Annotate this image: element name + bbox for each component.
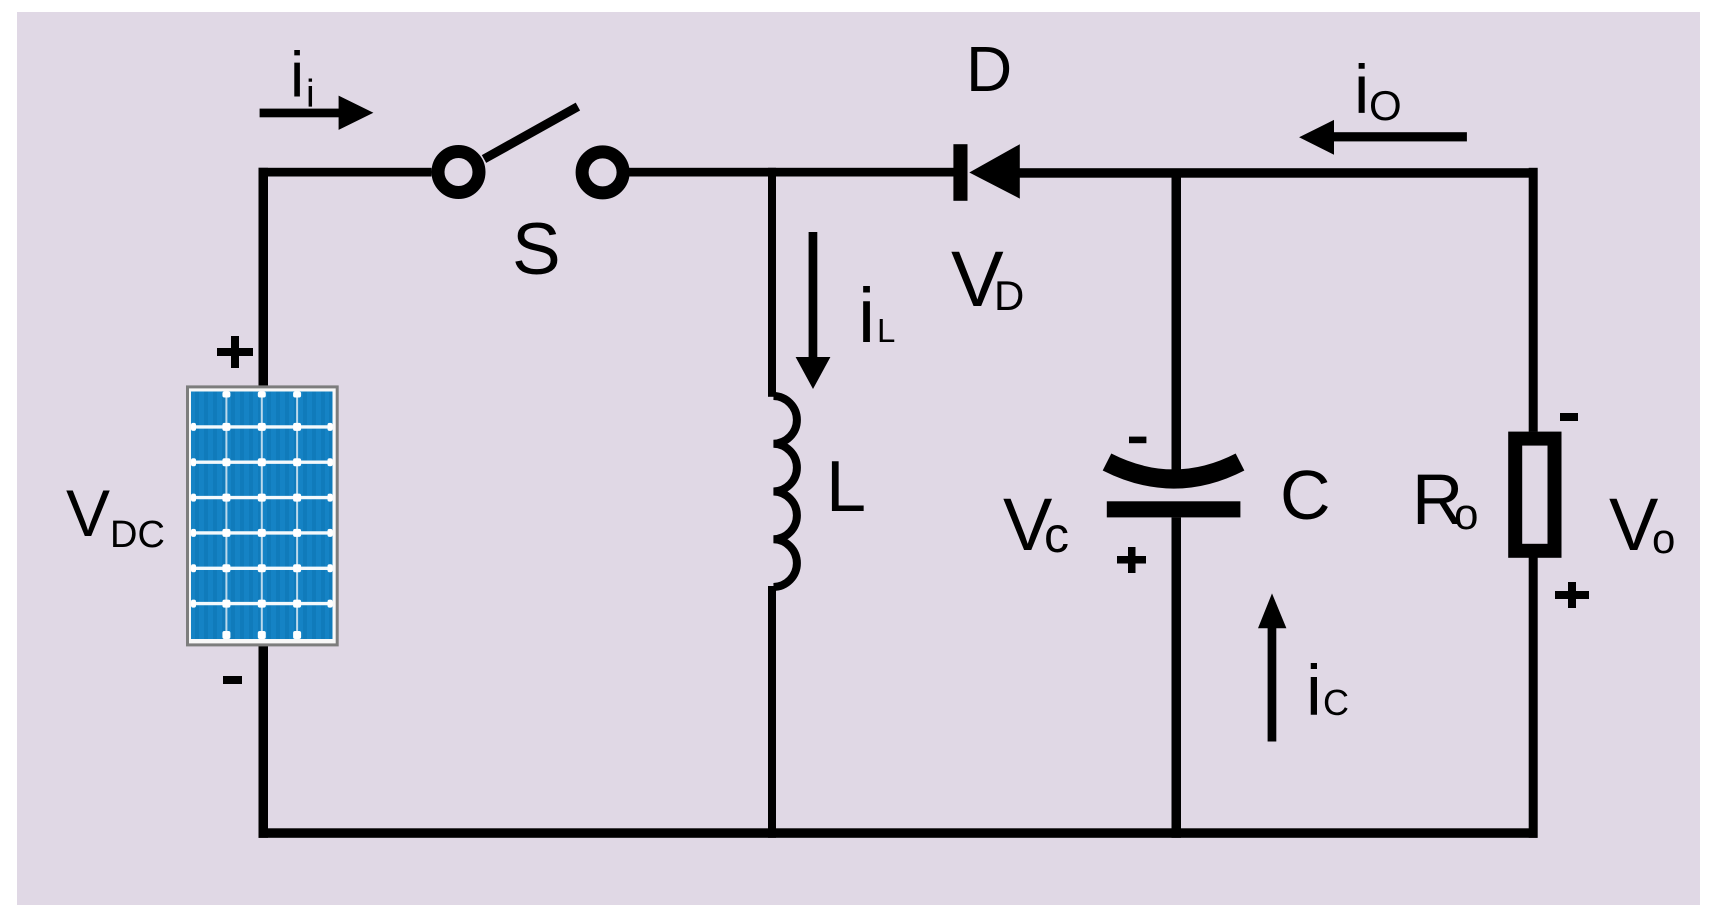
- svg-text:V: V: [66, 476, 110, 550]
- svg-text:D: D: [966, 33, 1012, 105]
- resistor Ro body: [1515, 439, 1554, 551]
- current arrow i_i: [260, 96, 374, 130]
- current arrow i_O: [1299, 120, 1467, 155]
- svg-text:L: L: [826, 447, 866, 527]
- switch S: right terminal: [582, 152, 623, 193]
- capacitor branch wire (bottom): [1172, 517, 1182, 837]
- wire right (resistor to bottom): [1529, 557, 1538, 838]
- current arrow i_C: [1258, 593, 1286, 741]
- wire bottom: [259, 828, 1538, 838]
- svg-text:C: C: [1323, 682, 1349, 723]
- inductor L coil: [774, 396, 797, 587]
- svg-text:o: o: [1454, 490, 1478, 539]
- capacitor C: curved plate: [1107, 462, 1240, 479]
- inductor branch wire (top): [768, 168, 776, 397]
- current arrow i_L: [796, 232, 831, 389]
- svg-text:i: i: [306, 73, 315, 116]
- wire right (top to resistor): [1529, 168, 1538, 432]
- minus sign at resistor top: [1560, 413, 1578, 421]
- diode D: triangle: [969, 144, 1020, 198]
- minus sign at capacitor top: [1129, 437, 1146, 444]
- capacitor branch wire (top): [1172, 172, 1182, 482]
- capacitor C: straight plate: [1107, 501, 1241, 517]
- solar panel VDC source: [186, 385, 339, 646]
- svg-text:i: i: [858, 273, 875, 359]
- wire top (left segment from source to switch): [259, 168, 432, 177]
- minus sign at panel bottom: [223, 676, 242, 684]
- wire left (source bottom): [259, 646, 269, 838]
- wire left (source top): [259, 168, 269, 386]
- diode D: cathode bar: [953, 144, 967, 201]
- svg-text:i: i: [1354, 51, 1369, 128]
- svg-text:C: C: [1280, 456, 1331, 534]
- inductor branch wire (bottom): [768, 586, 776, 838]
- svg-text:o: o: [1652, 515, 1675, 562]
- svg-text:O: O: [1369, 82, 1402, 129]
- switch S: blade: [484, 107, 578, 159]
- svg-text:L: L: [877, 312, 895, 349]
- svg-text:c: c: [1044, 507, 1069, 563]
- plus sign at panel top: [217, 336, 253, 368]
- plus sign at capacitor bottom: [1117, 547, 1146, 573]
- switch S: left terminal: [438, 152, 479, 193]
- svg-text:i: i: [1306, 652, 1322, 731]
- plus sign at resistor bottom: [1555, 582, 1589, 608]
- svg-text:D: D: [994, 272, 1024, 319]
- wire top (switch to diode): [629, 168, 954, 177]
- svg-text:i: i: [290, 39, 304, 111]
- svg-text:DC: DC: [110, 514, 165, 556]
- wire top (diode to right corner): [1019, 168, 1538, 178]
- svg-text:S: S: [512, 209, 561, 290]
